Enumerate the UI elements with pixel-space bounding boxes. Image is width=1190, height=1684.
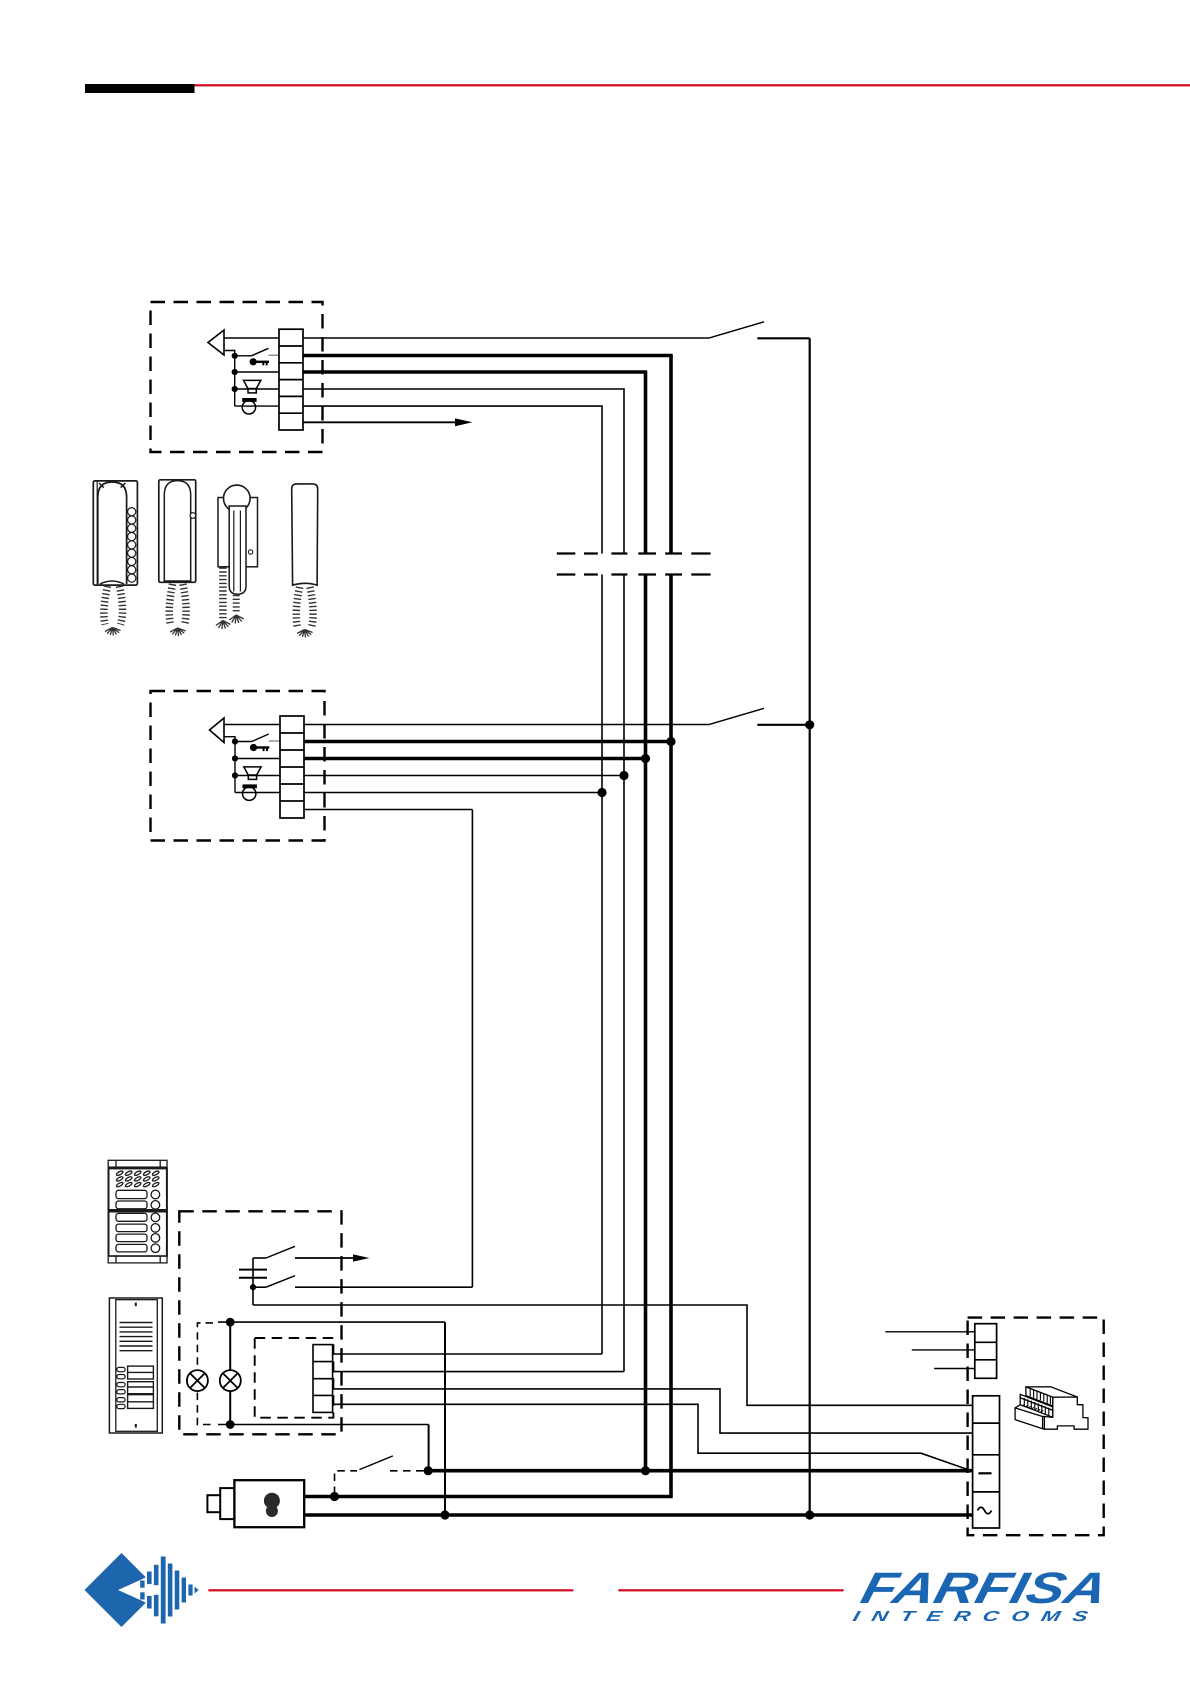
station 2 door-release button wire — [235, 741, 252, 743]
power supply output terminal strip — [973, 1396, 1000, 1528]
station 2 line 4 junction — [619, 771, 628, 780]
station 1 wire: receiver to terminal 1 — [224, 337, 279, 339]
ACI logo striped diamond — [140, 1557, 198, 1624]
lock wire lower (AC common, thick) to power terminal 4 — [304, 1513, 972, 1517]
changeover switch contact 2 wire to station riser — [295, 1286, 472, 1288]
station 2 door-release switch fixed contact — [269, 740, 280, 742]
AC common junction with lamp drop — [440, 1510, 449, 1519]
station 2 door-release switch arm — [252, 734, 269, 742]
lock wire upper junction — [330, 1492, 339, 1501]
audio entrance panel illustration — [109, 1298, 162, 1433]
station 2 bus junction node 3 — [232, 772, 238, 778]
mains terminal stub 1 — [885, 1331, 975, 1333]
station 2 line 1 junction on riser — [805, 720, 814, 729]
station 1 bus junction node 3 — [232, 386, 238, 392]
changeover switch contact 1 pivot stub — [253, 1257, 266, 1259]
station 1 line wire 1 — [303, 337, 709, 339]
release bus junction — [424, 1466, 433, 1475]
station 1 microphone — [242, 398, 256, 414]
station 1 bus junction node 2 — [232, 369, 238, 375]
electric lock body — [207, 1480, 304, 1527]
release bus junction with riser C — [641, 1466, 650, 1475]
station 2 wire: receiver to terminal 1 — [224, 724, 280, 726]
door-release bus wire (thick) to power terminal 3 — [428, 1469, 972, 1473]
station 2 wire: receiver return to common bus — [224, 737, 235, 742]
switch common junction — [250, 1284, 256, 1290]
power supply mains terminal strip — [975, 1324, 997, 1379]
speaker unit terminal strip — [313, 1345, 333, 1413]
station 2 bus junction node 1 — [232, 738, 238, 744]
changeover switch contact 2 arm — [266, 1276, 295, 1288]
lamp supply drop to AC wire — [444, 1322, 446, 1515]
station 1 line wire 3 (thick) — [303, 370, 647, 374]
station 1 wire: bus to terminal 5 — [235, 405, 279, 407]
station 1 line 1 isolation switch — [709, 322, 764, 338]
station 1 common bus — [234, 356, 236, 406]
station 2 key symbol — [250, 744, 269, 751]
station 1 bus junction node 1 — [232, 353, 238, 359]
optional lamp LP1 — [187, 1370, 208, 1391]
station 2 common bus — [234, 742, 236, 793]
handset A coiled cord — [104, 586, 123, 636]
station 2 line 2 junction — [666, 737, 675, 746]
station 2 line wire 6 to door panel — [304, 809, 472, 811]
mechanical link between contacts — [239, 1270, 267, 1278]
station 2 earpiece receiver — [210, 718, 225, 743]
footer red rule left segment — [208, 1589, 573, 1591]
riser wire F (station 2 line 6) — [471, 810, 473, 1288]
svg-text:INTERCOMS: INTERCOMS — [851, 1609, 1102, 1625]
station 1 door-release button wire — [235, 355, 252, 357]
riser wire D lower — [669, 575, 673, 1497]
station 2 wire: bus to terminal 5 — [235, 792, 280, 794]
lock wire upper (thick) to riser D — [304, 1495, 673, 1499]
station 2 wire: bus to terminal 3 — [235, 758, 280, 760]
wall handset C cords — [216, 568, 244, 630]
switch common vertical — [252, 1258, 254, 1305]
station 2 line 1 isolation switch — [709, 708, 764, 724]
station 2 line 3 junction — [641, 754, 650, 763]
lamp LP2 — [220, 1370, 241, 1391]
handset D coiled cord — [296, 587, 313, 638]
station 1 wire: bus to terminal 3 — [235, 371, 279, 373]
door station enclosure (dashed) — [179, 1211, 341, 1434]
station 1 loudspeaker — [244, 380, 261, 393]
terminal label minus — [979, 1472, 992, 1474]
push-button entrance panel illustration — [108, 1160, 167, 1263]
station 2 line wire 3 (thick) — [304, 757, 646, 761]
riser wire A lower — [601, 575, 603, 1355]
station 1 wire: receiver return to common bus — [224, 351, 235, 356]
FARFISA wordmark — [851, 1565, 1113, 1625]
changeover switch contact 1 output with arrow — [295, 1254, 370, 1261]
station 2 line 1 continuation to riser — [757, 724, 809, 726]
lamp supply wire (top) — [218, 1321, 445, 1323]
handset model D illustration — [292, 484, 318, 585]
intercom station 1 enclosure (dashed) — [151, 302, 323, 452]
ACI logo solid diamond — [85, 1553, 160, 1627]
lamp supply junction — [226, 1318, 235, 1327]
station 1 key symbol — [250, 358, 269, 365]
station 1 line wire 6 with continuation arrow — [303, 418, 473, 426]
changeover switch contact 2 pivot stub — [253, 1286, 266, 1288]
extra push-button arm — [359, 1456, 393, 1470]
station 1 line wire 2 (thick) — [303, 354, 673, 358]
station 1 door-release switch fixed contact — [269, 354, 280, 356]
handset model B illustration — [159, 480, 196, 583]
riser wire C lower — [644, 575, 648, 1471]
handset model A illustration — [93, 481, 137, 585]
riser wire C (line 3, thick) upper — [644, 372, 648, 554]
riser wire A (line 5) upper — [601, 406, 603, 553]
DIN-rail transformer module — [1015, 1387, 1088, 1429]
header black bar — [85, 84, 195, 93]
station 1 terminal strip — [279, 329, 303, 430]
station 2 terminal strip — [280, 716, 304, 818]
optional lamp LP1 branch (dashed) — [197, 1323, 213, 1425]
header red rule — [195, 84, 1190, 86]
lamp LP2 leads — [229, 1322, 231, 1424]
station 2 microphone — [243, 784, 257, 800]
station 1 wire: bus to terminal 4 — [235, 388, 279, 390]
station 2 line wire 4 — [304, 775, 624, 777]
cable interruption mark upper — [557, 552, 711, 554]
extra door-release push-button branch (dashed) — [335, 1471, 358, 1494]
riser wire D (line 2, thick) upper — [669, 356, 673, 554]
speaker terminal wire 4 to power terminal 3 — [333, 1404, 973, 1470]
changeover switch contact 1 arm — [266, 1246, 295, 1258]
station 2 line wire 5 — [304, 792, 602, 794]
speaker terminal wire 2 to riser B — [333, 1371, 624, 1373]
lamp return wire (bottom) — [218, 1424, 429, 1426]
station 1 line 1 continuation to riser — [757, 337, 809, 339]
AC common junction with riser E — [805, 1510, 814, 1519]
riser wire B lower — [623, 575, 625, 1372]
station 1 line wire 4 — [303, 388, 625, 390]
riser wire E (line 1) full height — [809, 338, 811, 1515]
cable interruption mark lower — [557, 573, 711, 575]
station 2 line 5 junction — [597, 788, 606, 797]
svg-text:FARFISA: FARFISA — [856, 1565, 1112, 1613]
mains terminal stub 2 — [912, 1349, 975, 1351]
intercom station 2 enclosure (dashed) — [151, 691, 325, 841]
station 2 bus junction node 2 — [232, 755, 238, 761]
extra push-button dashed wire to bus junction — [390, 1470, 424, 1472]
riser wire B (line 4) upper — [623, 389, 625, 554]
speaker terminal wire 1 to riser A — [333, 1353, 602, 1355]
mains terminal stub 3 — [934, 1368, 975, 1370]
wall handset model C illustration — [218, 485, 258, 594]
lamp return junction — [226, 1420, 235, 1429]
station 2 wire: bus to terminal 4 — [235, 775, 280, 777]
switch common wire to power terminal 1 — [253, 1305, 973, 1405]
power supply enclosure (dashed) — [968, 1318, 1104, 1536]
station 2 line wire 1 — [304, 724, 709, 726]
station 2 line wire 2 (thick) — [304, 740, 671, 744]
handset B coiled cord — [169, 584, 186, 636]
footer red rule right segment — [618, 1589, 843, 1591]
station 1 earpiece receiver — [208, 330, 224, 355]
terminal label AC tilde — [978, 1507, 992, 1514]
station 2 loudspeaker — [244, 767, 261, 779]
speaker terminal wire 3 to power terminal 2 — [333, 1389, 973, 1433]
station 1 line wire 5 — [303, 405, 603, 407]
lock keyhole — [264, 1493, 280, 1517]
speaker unit enclosure (dashed) — [255, 1338, 334, 1418]
station 1 door-release switch arm — [252, 348, 269, 356]
lamp return drop to bus — [428, 1425, 430, 1471]
